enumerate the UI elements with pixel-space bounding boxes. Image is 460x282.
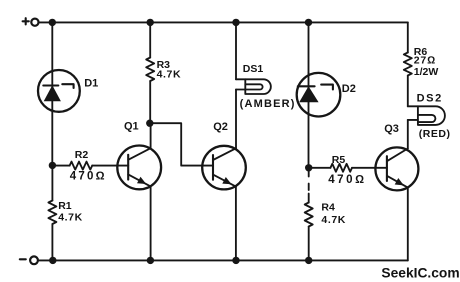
terminal + positive supply	[23, 18, 39, 26]
svg-text:D1: D1	[84, 78, 98, 90]
wire top bus to R3	[149, 22, 151, 57]
wire R1 to bottom bus	[51, 224, 53, 260]
wire R6 to DS2	[407, 76, 409, 107]
wire top-right drop to R6	[407, 22, 409, 52]
node C junction D2 rail / R5 / R4	[305, 164, 312, 171]
wire node B to Q2 base (two bends)	[150, 123, 203, 165]
label R4 value 4.7K	[321, 202, 346, 227]
zener diode D1 (symbol)	[38, 70, 80, 112]
svg-text:DS1: DS1	[243, 63, 264, 75]
node junction bottom bus / left rail	[49, 257, 56, 264]
svg-text:27Ω: 27Ω	[414, 55, 436, 67]
svg-text:4.7K: 4.7K	[321, 214, 346, 226]
wire Q3 emitter to bottom bus corner	[407, 188, 409, 261]
svg-text:D2: D2	[342, 83, 356, 95]
label R5 value 470 ohm	[328, 154, 366, 186]
svg-text:(RED): (RED)	[419, 128, 451, 140]
node junction top bus / left rail	[49, 19, 56, 26]
transistor Q1 (NPN symbol)	[117, 146, 161, 190]
resistor R6 (symbol)	[404, 53, 412, 76]
svg-text:4.7K: 4.7K	[157, 69, 182, 81]
resistor R4 (symbol)	[305, 203, 313, 227]
svg-text:R1: R1	[58, 200, 72, 212]
svg-text:Q2: Q2	[213, 121, 228, 133]
label DS1	[243, 63, 264, 75]
label Q1	[124, 120, 139, 132]
svg-text:R4: R4	[321, 202, 335, 214]
svg-text:470Ω: 470Ω	[70, 170, 107, 182]
wire DS2 to Q3 collector	[407, 120, 409, 149]
wire node C to R5	[312, 167, 330, 169]
resistor R2 (symbol)	[70, 162, 93, 170]
svg-text:470Ω: 470Ω	[328, 174, 366, 186]
label D1	[84, 78, 98, 90]
svg-text:SeekIC.com: SeekIC.com	[381, 265, 459, 280]
svg-text:Q1: Q1	[124, 120, 139, 132]
lamp DS2 (symbol)	[408, 106, 445, 125]
label DS2 color (RED)	[419, 128, 451, 140]
label DS1 color (AMBER)	[240, 98, 296, 110]
label R2 value 470 ohm	[70, 149, 107, 182]
wire bottom return bus	[38, 259, 408, 261]
label DS2	[417, 93, 443, 105]
wire DS1 to Q2 collector	[235, 90, 237, 149]
zener diode D2 (symbol)	[297, 73, 341, 168]
svg-text:R5: R5	[332, 154, 346, 166]
label Q2	[213, 121, 228, 133]
wire top bus to D2	[308, 22, 310, 73]
node junction bottom bus / R4 rail	[305, 257, 312, 264]
svg-text:1/2W: 1/2W	[414, 66, 439, 78]
svg-text:4.7K: 4.7K	[58, 212, 83, 224]
svg-text:(AMBER): (AMBER)	[240, 98, 296, 110]
watermark SeekIC.com	[381, 265, 459, 280]
node B junction R3 / Q1 collector / Q2 base	[146, 120, 153, 127]
node junction top bus / R3 rail	[147, 19, 154, 26]
label R3 value 4.7K	[157, 59, 182, 80]
wire R4 to bottom bus	[308, 227, 310, 261]
label R6 value 27 ohm 1/2W	[414, 46, 439, 78]
label D2	[342, 83, 356, 95]
resistor R1 (symbol)	[48, 201, 56, 225]
node junction bottom bus / Q1 emitter	[147, 257, 154, 264]
node A junction R2 / R1 / left rail	[49, 162, 56, 169]
resistor R5 (symbol)	[331, 164, 353, 172]
svg-text:R2: R2	[75, 149, 89, 161]
wire node C to R4 (broken scan dashes)	[308, 168, 310, 203]
wire Q1 emitter to bottom bus	[150, 186, 152, 260]
wire node A to R2	[56, 165, 70, 167]
node junction bottom bus / Q2 emitter	[232, 257, 239, 264]
node junction top bus / DS1 rail	[232, 19, 239, 26]
wire R5 to Q3 base	[352, 167, 376, 169]
transistor Q3 (NPN symbol)	[375, 147, 418, 190]
wire Q2 emitter to bottom bus	[235, 187, 237, 261]
node junction top bus / D2 rail	[305, 19, 312, 26]
resistor R3 (symbol)	[146, 58, 154, 82]
wire top bus to DS1	[235, 22, 237, 79]
wire left rail from top bus through D1 to node A	[51, 22, 53, 165]
wire R3 to node B	[149, 81, 151, 123]
label Q3	[384, 123, 399, 135]
lamp DS1 (symbol)	[236, 79, 271, 94]
wire R2 to Q1 base	[92, 165, 117, 167]
terminal - negative supply	[20, 256, 38, 264]
wire node A to R1	[51, 165, 53, 200]
svg-text:Q3: Q3	[384, 123, 399, 135]
wire top supply bus	[39, 21, 408, 23]
label R1 value 4.7K	[58, 200, 83, 224]
wire node B to Q1 collector	[150, 123, 152, 148]
svg-text:DS2: DS2	[417, 93, 443, 105]
transistor Q2 (NPN symbol)	[202, 146, 246, 190]
